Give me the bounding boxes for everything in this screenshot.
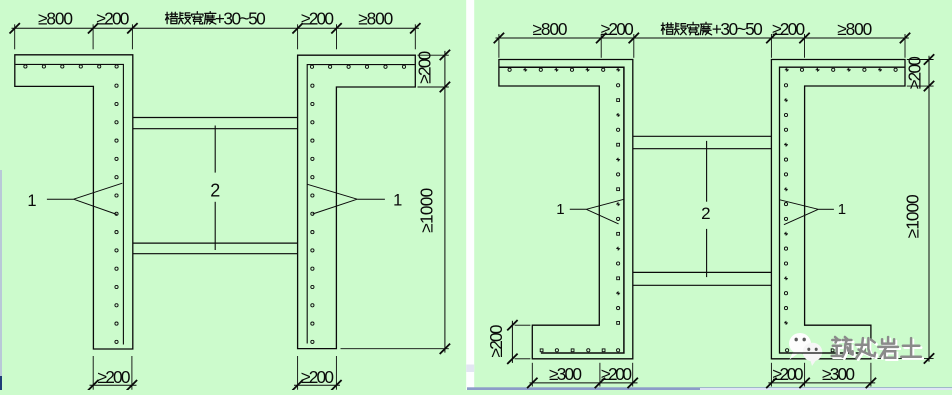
tick b3 <box>292 380 302 390</box>
extension line x=132.4 <box>131 24 133 49</box>
ext line rd x=601.2 <box>600 34 602 58</box>
ext line rd x=633.8 <box>633 34 635 58</box>
bottom dim line right wall <box>294 384 340 386</box>
left window edge strip <box>0 170 2 378</box>
svg-text:2: 2 <box>701 204 710 223</box>
svg-text:≥800: ≥800 <box>837 19 872 39</box>
watermark text 筑龙岩土 shadow <box>834 339 923 360</box>
svg-text:≥1000: ≥1000 <box>416 188 436 233</box>
rd tick bf3 <box>628 378 638 388</box>
rd tick bf4 <box>766 378 776 388</box>
extension line x=297.6 <box>297 24 299 49</box>
svg-text:≥200: ≥200 <box>486 324 506 357</box>
tick at x=132.4 <box>127 23 137 33</box>
rd tick v2 <box>924 81 934 91</box>
right wall outline (left diagram) <box>298 55 416 348</box>
ext line rd x=498.9 <box>498 34 500 58</box>
left diagram top dimension line <box>12 27 420 29</box>
leader 1 left (left diagram) <box>47 198 74 200</box>
bottom window edge strip <box>467 387 952 390</box>
leader 1 right (left diagram) <box>357 198 385 200</box>
svg-text:≥200: ≥200 <box>773 364 804 384</box>
rd bottom dim line right foot <box>768 382 875 384</box>
foot ext top <box>515 324 531 326</box>
tick v3 <box>440 344 450 354</box>
rd tick bf2 <box>595 378 605 388</box>
svg-text:≥200: ≥200 <box>601 19 634 39</box>
rebar line over watermark <box>780 352 863 354</box>
left wall rebar dots <box>24 65 118 344</box>
rd vertical dim line <box>928 56 930 362</box>
tick v1 <box>440 50 450 60</box>
svg-text:≥200: ≥200 <box>301 8 334 28</box>
leader 1 left (right diagram) <box>570 208 587 210</box>
left wall rebar line (right diagram) <box>500 67 624 353</box>
rd tick v3 <box>924 353 934 363</box>
svg-text:+30~50: +30~50 <box>712 19 763 39</box>
ext line rd x=804.5 <box>804 34 806 58</box>
left wall outline (right diagram) <box>499 60 633 359</box>
svg-text:≥1000: ≥1000 <box>902 194 922 238</box>
svg-text:≥300: ≥300 <box>549 364 582 384</box>
svg-text:≥800: ≥800 <box>358 8 393 28</box>
svg-text:1: 1 <box>27 192 36 210</box>
rd bottom ext lines right foot <box>770 363 772 387</box>
right wall rebar dots (right diagram) <box>784 68 897 352</box>
watermark big bubble <box>789 333 811 354</box>
extension line x=14.7 <box>14 24 16 49</box>
tick at x=93.1 <box>88 23 98 33</box>
svg-text:≥200: ≥200 <box>96 8 129 28</box>
svg-text:≥200: ≥200 <box>301 367 334 387</box>
foot tick 2 <box>507 354 517 364</box>
tick at x=297.6 <box>292 23 302 33</box>
extension line x=336.5 <box>336 24 338 49</box>
svg-text:1: 1 <box>556 201 564 218</box>
lower strut (right diagram) <box>633 271 772 273</box>
bottom ext lines right wall <box>297 356 299 390</box>
left wall rebar dots (right diagram) <box>508 68 620 352</box>
ext line mid right <box>418 86 449 88</box>
rd bottom dim line left foot <box>529 382 637 384</box>
tick rd x=633.8 <box>629 33 639 43</box>
foot dim line <box>511 321 513 363</box>
right wall rebar dots <box>310 65 405 343</box>
tick b4 <box>331 380 341 390</box>
right wall outline (right diagram) <box>771 60 905 359</box>
dim text 槽段宽度 <box>166 12 216 25</box>
svg-text:1: 1 <box>393 192 402 210</box>
tick rd x=905.0 <box>900 33 910 43</box>
rd dim text 槽段宽度 <box>661 22 711 35</box>
svg-text:2: 2 <box>210 180 220 200</box>
svg-text:≥800: ≥800 <box>38 8 73 28</box>
svg-text:≥200: ≥200 <box>98 367 131 387</box>
svg-text:≥200: ≥200 <box>905 56 925 89</box>
svg-text:≥200: ≥200 <box>601 364 632 384</box>
svg-text:≥200: ≥200 <box>772 19 805 39</box>
bottom dim line left wall <box>90 384 137 386</box>
right diagram top dimension line <box>496 37 909 39</box>
extension line x=415.3 <box>414 24 416 49</box>
svg-text:≥300: ≥300 <box>822 364 855 384</box>
tick rd x=498.9 <box>494 33 504 43</box>
rd tick bf5 <box>799 378 809 388</box>
left wall rebar line <box>16 64 124 344</box>
svg-text:≥800: ≥800 <box>533 19 568 39</box>
foot tick 1 <box>507 320 517 330</box>
tick at x=14.7 <box>10 23 20 33</box>
svg-text:1: 1 <box>838 201 846 218</box>
extension line x=93.1 <box>92 24 94 49</box>
watermark text 筑龙岩土 <box>832 337 921 358</box>
rd tick v1 <box>924 54 934 64</box>
tick rd x=771.4 <box>766 33 776 43</box>
tick at x=336.5 <box>331 23 341 33</box>
tick rd x=601.2 <box>596 33 606 43</box>
tick b1 <box>88 380 98 390</box>
rd bottom ext lines left foot <box>531 363 533 387</box>
rd ext line mid right <box>907 85 934 87</box>
lower strut (left diagram) <box>133 242 298 244</box>
rd ext line top right <box>907 59 934 61</box>
upper strut (right diagram) <box>633 135 772 137</box>
ext line rd x=771.4 <box>770 34 772 58</box>
rd ext line bottom right <box>873 357 934 359</box>
foot ext bottom <box>515 358 531 360</box>
rd tick bf1 <box>527 378 537 388</box>
divider strip between the two pasted images <box>466 0 474 390</box>
rd tick bf6 <box>866 378 876 388</box>
tick rd x=804.5 <box>799 33 809 43</box>
svg-text:≥200: ≥200 <box>414 51 434 84</box>
ext line bottom right <box>341 348 449 350</box>
strut leader line 2 <box>214 126 216 173</box>
upper strut (left diagram) <box>133 117 298 119</box>
tick at x=415.3 <box>410 23 420 33</box>
ext line top right <box>418 54 449 56</box>
bottom ext lines left wall <box>92 356 94 390</box>
vertical dim line right <box>444 51 446 353</box>
ext line rd x=905.0 <box>904 34 906 58</box>
tick v2 <box>440 82 450 92</box>
tick b2 <box>127 380 137 390</box>
leader 1 right (right diagram) <box>818 208 834 210</box>
right wall rebar line (right diagram) <box>780 67 905 353</box>
right wall rebar line <box>307 65 415 344</box>
strut leader line 2 (right diagram) <box>706 141 708 202</box>
watermark small bubble <box>803 343 823 362</box>
svg-text:+30~50: +30~50 <box>215 8 266 28</box>
left wall outline (left diagram) <box>15 55 133 349</box>
